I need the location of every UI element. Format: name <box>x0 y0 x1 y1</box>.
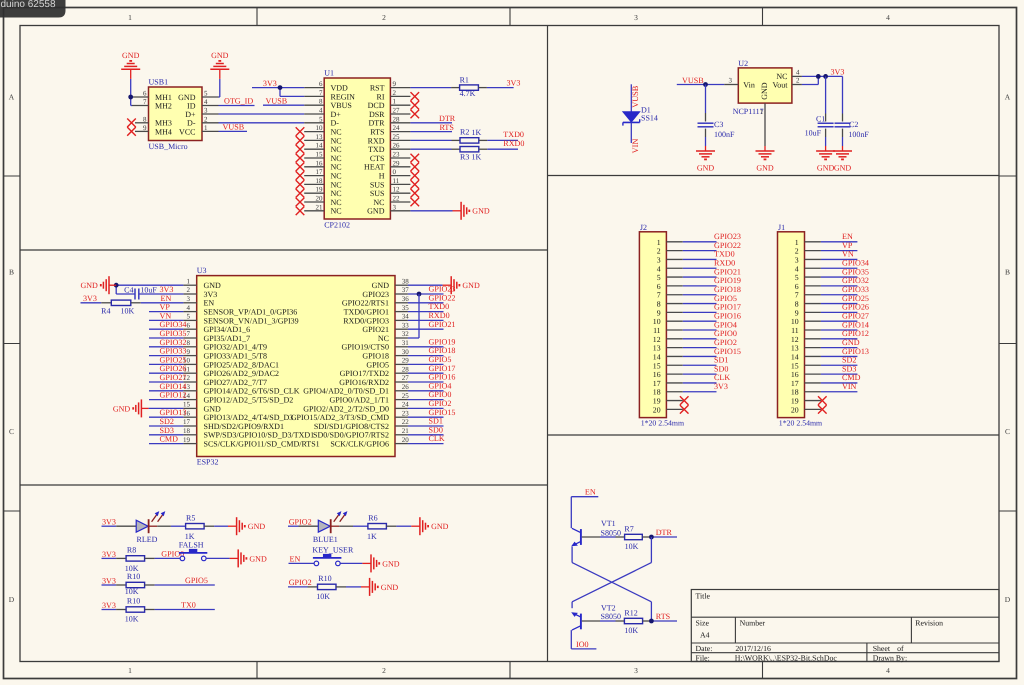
svg-text:EN: EN <box>585 488 596 497</box>
svg-text:SENSOR_VN/AD1_3/GPI39: SENSOR_VN/AD1_3/GPI39 <box>204 316 299 325</box>
resistor R5 1K <box>185 514 204 541</box>
svg-text:SD3: SD3 <box>842 364 856 373</box>
section divider vertical <box>547 26 549 662</box>
U3 left pin stubs and numbers <box>183 277 197 443</box>
svg-text:6: 6 <box>319 80 323 88</box>
svg-text:13: 13 <box>653 344 661 353</box>
svg-text:CTS: CTS <box>370 154 385 163</box>
svg-text:38: 38 <box>402 277 410 285</box>
power ground GND above USB1 <box>121 51 140 79</box>
svg-text:GPIO2: GPIO2 <box>714 338 737 347</box>
svg-text:17: 17 <box>791 379 799 388</box>
net label GPIO18 at U3 pin 30 <box>429 346 456 355</box>
net label VUSB at USB1 <box>223 122 245 131</box>
wire U3 left pin 6 GPIO34 <box>149 328 183 330</box>
net label GPIO27 at U3 pin 12 <box>160 373 187 382</box>
J1 pin 19 no-connect <box>805 396 827 405</box>
net label EN at J1 pin 1 <box>842 232 853 241</box>
svg-text:GPIO22: GPIO22 <box>429 293 456 302</box>
svg-text:of: of <box>897 644 904 653</box>
net label VP at U3 pin 4 <box>160 303 171 312</box>
svg-text:CMD: CMD <box>160 435 179 444</box>
svg-text:2: 2 <box>382 666 386 675</box>
svg-text:GPIO12/AD2_5/T5/SD_D2: GPIO12/AD2_5/T5/SD_D2 <box>204 396 294 405</box>
svg-text:SWP/SD3/GPIO10/SD_D3/TXD1: SWP/SD3/GPIO10/SD_D3/TXD1 <box>204 431 315 440</box>
wire C3 lower lead <box>705 129 707 146</box>
svg-text:20: 20 <box>316 195 324 203</box>
svg-text:10K: 10K <box>121 307 135 316</box>
svg-text:S8050: S8050 <box>601 529 621 538</box>
svg-text:GPIO23: GPIO23 <box>429 285 456 294</box>
svg-text:RTS: RTS <box>370 128 384 137</box>
svg-text:8: 8 <box>187 339 191 347</box>
wire U3 pin37 GPIO23 <box>408 293 444 295</box>
dark corner tag duino 62558 <box>0 0 66 18</box>
wire 3V3 to R10 TX0 <box>102 609 127 611</box>
svg-text:A: A <box>1005 93 1011 102</box>
svg-text:9: 9 <box>187 348 191 356</box>
column number 4 top <box>886 13 890 22</box>
USB1 pin 5 <box>202 90 219 98</box>
svg-text:EN: EN <box>290 555 301 564</box>
svg-text:GPIO22/RTS1: GPIO22/RTS1 <box>342 299 389 308</box>
wire U3 left pin 18 SD3 <box>149 434 183 436</box>
net label 3V3 at U2 output <box>831 67 845 76</box>
power ground GND above USB1 pin5 <box>210 51 229 79</box>
section divider left upper <box>20 249 548 251</box>
svg-text:duino 62558: duino 62558 <box>1 0 56 10</box>
svg-text:6: 6 <box>187 321 191 329</box>
power ground GND right of U3 pin38 <box>443 276 480 294</box>
net label GPIO35 at U3 pin 7 <box>160 329 187 338</box>
svg-text:4: 4 <box>204 98 208 106</box>
wire U3 right pin 25 GPIO0 <box>408 399 444 401</box>
svg-text:J1: J1 <box>778 223 785 232</box>
svg-text:NC: NC <box>331 180 342 189</box>
svg-text:23: 23 <box>393 151 401 159</box>
svg-text:GND: GND <box>249 554 267 563</box>
svg-text:GND: GND <box>80 281 98 290</box>
USB1 pin 2 wire D- <box>202 115 304 123</box>
svg-text:GPIO27: GPIO27 <box>160 373 187 382</box>
net label VUSB rotated at D1 <box>631 85 640 108</box>
J2 pin 19 no-connect <box>666 396 688 405</box>
net label CLK at U3 pin 20 <box>429 434 445 443</box>
svg-text:A: A <box>9 93 15 102</box>
wire U3 left pin 12 GPIO27 <box>149 381 183 383</box>
svg-text:4: 4 <box>187 304 191 312</box>
svg-text:Size: Size <box>696 619 710 628</box>
net label SD1 at J2 pin 15 <box>714 356 728 365</box>
net label GPIO33 at J1 pin 7 <box>842 285 869 294</box>
wire U3 left pin 11 GPIO26 <box>149 372 183 374</box>
net label GPIO0 at J2 pin 12 <box>714 329 737 338</box>
net label RTS at VT2 <box>656 612 670 621</box>
svg-text:10K: 10K <box>625 542 639 551</box>
svg-text:4: 4 <box>795 264 799 273</box>
svg-text:2: 2 <box>796 77 800 85</box>
column number 4 bottom <box>886 666 890 675</box>
svg-text:GPIO4/AD2_0/T0/SD_D1: GPIO4/AD2_0/T0/SD_D1 <box>303 387 389 396</box>
wire U3 right pin 26 GPIO4 <box>408 390 444 392</box>
svg-text:12: 12 <box>393 186 401 194</box>
svg-text:DSR: DSR <box>369 110 385 119</box>
svg-text:1K: 1K <box>367 532 377 541</box>
svg-text:21: 21 <box>402 427 410 435</box>
net label 3V3 right of R1 <box>507 78 521 87</box>
wire EN to KEY_USER <box>289 562 315 564</box>
net label GPIO12 at U3 pin 14 <box>160 391 187 400</box>
resistor R12 10K <box>624 609 642 635</box>
svg-text:6: 6 <box>143 90 147 98</box>
net label GPIO27 at J1 pin 10 <box>842 311 869 320</box>
svg-text:25: 25 <box>402 392 410 400</box>
svg-text:17: 17 <box>316 168 324 176</box>
wire R7 to DTR <box>642 536 677 538</box>
net label VUSB at U1 VBUS <box>266 97 288 106</box>
svg-text:A4: A4 <box>700 631 710 640</box>
power ground GND below C1 <box>816 146 835 173</box>
svg-text:GPIO18: GPIO18 <box>429 346 456 355</box>
svg-text:GPI34/AD1_6: GPI34/AD1_6 <box>204 325 251 334</box>
net label GPIO19 at J2 pin 6 <box>714 276 741 285</box>
pushbutton KEY_USER <box>312 546 354 566</box>
svg-text:GND: GND <box>697 164 715 173</box>
svg-text:4.7K: 4.7K <box>460 89 476 98</box>
svg-text:3V3: 3V3 <box>507 78 521 87</box>
svg-text:8: 8 <box>657 300 661 309</box>
svg-text:37: 37 <box>402 286 410 294</box>
junction DTR node <box>649 535 654 540</box>
op-amp U1 CP2102 body <box>324 69 390 230</box>
svg-text:DTR: DTR <box>656 528 673 537</box>
svg-text:NC: NC <box>331 145 342 154</box>
svg-text:7: 7 <box>795 291 799 300</box>
svg-text:USB_Micro: USB_Micro <box>149 142 188 151</box>
wire USB1 pin5 to ground <box>219 79 220 97</box>
net label SD2 at J1 pin 15 <box>842 356 856 365</box>
svg-text:GPIO12: GPIO12 <box>160 391 187 400</box>
svg-text:J2: J2 <box>640 223 647 232</box>
junction 3V3 U1 <box>278 85 283 90</box>
svg-text:GPIO2: GPIO2 <box>289 518 312 527</box>
net label GPIO2 at R10 right <box>289 578 312 587</box>
svg-text:C1: C1 <box>816 115 825 124</box>
svg-text:GPIO0/AD2_1/T1: GPIO0/AD2_1/T1 <box>329 396 389 405</box>
wire U3 left pin 8 GPIO32 <box>149 346 183 348</box>
svg-text:SD3: SD3 <box>160 426 174 435</box>
svg-text:R1: R1 <box>460 75 469 84</box>
svg-text:17: 17 <box>183 418 191 426</box>
column number 2 top <box>382 13 386 22</box>
wire FALSH to ground <box>206 557 230 559</box>
svg-text:TXD0: TXD0 <box>714 250 735 259</box>
svg-text:VDD: VDD <box>331 84 349 93</box>
svg-text:R3: R3 <box>460 152 469 161</box>
svg-text:U3: U3 <box>197 266 207 275</box>
svg-text:C: C <box>9 427 14 436</box>
svg-text:GPIO17: GPIO17 <box>429 364 456 373</box>
net label RXD0 at J2 pin 4 <box>714 259 735 268</box>
svg-text:VUSB: VUSB <box>631 85 640 108</box>
svg-text:12: 12 <box>791 335 799 344</box>
svg-text:GPIO17: GPIO17 <box>714 303 741 312</box>
svg-text:GND: GND <box>122 51 140 60</box>
column number 1 top <box>128 13 132 22</box>
svg-text:3V3: 3V3 <box>83 294 97 303</box>
junction U3 pin37 pin32 <box>417 292 422 297</box>
svg-text:GND: GND <box>462 281 480 290</box>
svg-text:TX0: TX0 <box>181 601 196 610</box>
svg-text:TXD: TXD <box>368 145 385 154</box>
wire DTR cross to VT2 emitter <box>572 537 651 608</box>
svg-text:8: 8 <box>795 300 799 309</box>
svg-text:GPIO25: GPIO25 <box>160 355 187 364</box>
svg-text:EN: EN <box>161 294 172 303</box>
wire U3 right pin 30 GPIO18 <box>408 355 444 357</box>
J1 pin 16 wire SD3 <box>805 373 858 375</box>
wire R6 to ground <box>386 525 411 527</box>
svg-text:S8050: S8050 <box>601 612 621 621</box>
J1 pin 4 wire GPIO34 <box>805 267 858 269</box>
svg-text:19: 19 <box>653 397 661 406</box>
wire 3V3 to R4 <box>81 302 112 304</box>
wire U3 right pin 22 SD1 <box>408 425 444 427</box>
svg-text:18: 18 <box>791 388 799 397</box>
svg-text:18: 18 <box>653 388 661 397</box>
svg-text:GND: GND <box>756 164 774 173</box>
svg-text:18: 18 <box>183 427 191 435</box>
svg-text:7: 7 <box>319 89 323 97</box>
net label IO0 <box>576 640 589 649</box>
J1 pin 9 wire GPIO26 <box>805 311 858 313</box>
net label 3V3 at R10 GPIO5 <box>102 576 116 585</box>
resistor R7 10K <box>624 525 642 551</box>
U2 pin 4 NC wire <box>792 68 843 76</box>
net label 3V3 at J2 pin 18 <box>714 382 728 391</box>
svg-text:6: 6 <box>657 282 661 291</box>
resistor R10 right 10K <box>316 574 336 601</box>
wire U3 right pin 36 GPIO22 <box>408 302 444 304</box>
svg-text:100nF: 100nF <box>848 130 869 139</box>
svg-text:TXD0: TXD0 <box>503 130 524 139</box>
svg-text:GND: GND <box>372 281 390 290</box>
svg-text:0: 0 <box>393 168 397 176</box>
svg-text:21: 21 <box>316 203 324 211</box>
svg-text:File:: File: <box>696 653 710 662</box>
wire 3V3 to R10 GPIO5 <box>102 584 127 586</box>
svg-text:D: D <box>1005 595 1011 604</box>
net label GPIO16 at U3 pin 27 <box>429 373 456 382</box>
svg-text:GPIO35: GPIO35 <box>160 329 187 338</box>
svg-text:3: 3 <box>204 107 208 115</box>
svg-text:R10: R10 <box>127 572 140 581</box>
svg-text:GPIO14/AD2_6/T6/SD_CLK: GPIO14/AD2_6/T6/SD_CLK <box>204 387 300 396</box>
svg-text:16: 16 <box>791 370 799 379</box>
svg-text:DTR: DTR <box>439 114 456 123</box>
regulator U2 NCP1117 body <box>733 59 792 116</box>
svg-text:RXD0: RXD0 <box>429 311 450 320</box>
svg-text:GPIO5: GPIO5 <box>366 360 389 369</box>
net label SD0 at J2 pin 16 <box>714 364 728 373</box>
svg-text:10uF: 10uF <box>140 285 157 294</box>
svg-text:5: 5 <box>187 313 191 321</box>
wire U3 pin15 GND <box>149 407 184 409</box>
svg-text:GND: GND <box>248 522 266 531</box>
svg-text:4: 4 <box>319 107 323 115</box>
svg-text:GPIO21: GPIO21 <box>362 325 389 334</box>
svg-text:U1: U1 <box>324 69 334 78</box>
section divider left lower <box>20 484 548 486</box>
svg-text:ESP32: ESP32 <box>197 457 219 466</box>
svg-text:NC: NC <box>331 163 342 172</box>
power ground GND right of R5 <box>228 517 265 535</box>
svg-text:16: 16 <box>653 370 661 379</box>
power ground GND right of FALSH <box>230 549 267 567</box>
resistor R8 10K <box>125 546 145 573</box>
svg-text:SD2: SD2 <box>842 356 856 365</box>
svg-text:GPIO18: GPIO18 <box>362 352 389 361</box>
svg-text:SHD/SD2/GPIO9/RXD1: SHD/SD2/GPIO9/RXD1 <box>204 422 284 431</box>
svg-text:GPIO0: GPIO0 <box>714 329 737 338</box>
svg-text:11: 11 <box>791 326 799 335</box>
svg-text:1: 1 <box>760 108 764 116</box>
USB1 pin 8 no-connect <box>127 115 148 127</box>
svg-text:VCC: VCC <box>179 127 195 136</box>
net label VUSB at U2 <box>682 76 704 85</box>
wire BLUE1 to R6 <box>331 525 368 527</box>
svg-text:GPIO14: GPIO14 <box>842 320 869 329</box>
wire U3 left pin 9 GPIO33 <box>149 355 183 357</box>
svg-text:GPIO15/AD2_3/T3/SD_CMD: GPIO15/AD2_3/T3/SD_CMD <box>291 413 389 422</box>
net label TXD0 <box>503 130 524 139</box>
svg-text:VN: VN <box>842 250 854 259</box>
svg-text:GPIO16: GPIO16 <box>714 311 741 320</box>
svg-text:3V3: 3V3 <box>102 601 116 610</box>
wire U1 RXD to R2 <box>410 139 460 141</box>
svg-text:MH2: MH2 <box>155 101 172 110</box>
svg-text:4: 4 <box>657 264 661 273</box>
svg-text:5: 5 <box>795 273 799 282</box>
svg-text:10: 10 <box>653 317 661 326</box>
svg-text:VP: VP <box>842 241 853 250</box>
svg-text:100nF: 100nF <box>714 130 735 139</box>
J2 pin 11 wire GPIO4 <box>666 329 716 331</box>
U1 left pin stubs and numbers <box>304 80 324 211</box>
junction Vout node 1 <box>816 74 821 79</box>
J2 pin 8 wire GPIO5 <box>666 303 716 305</box>
svg-text:14: 14 <box>316 142 324 150</box>
svg-text:SD1: SD1 <box>429 417 443 426</box>
net label EN at U3 pin3 <box>161 294 172 303</box>
svg-text:RXD0: RXD0 <box>503 139 524 148</box>
J2 pin 16 wire SD0 <box>666 373 716 375</box>
J2 pin 12 wire GPIO0 <box>666 338 716 340</box>
J1 pin 8 wire GPIO25 <box>805 303 858 305</box>
wire U3 left pin 13 GPIO14 <box>149 390 183 392</box>
svg-text:27: 27 <box>393 107 401 115</box>
wire U3 right pin 33 GPIO21 <box>408 328 444 330</box>
wire C2 lower lead <box>842 129 844 146</box>
net label VN at J1 pin 3 <box>842 250 854 259</box>
USB1 pin 3 wire D+ <box>202 107 304 115</box>
svg-text:VIN: VIN <box>631 139 640 154</box>
svg-text:NC: NC <box>378 334 389 343</box>
wire U3 right pin 21 SD0 <box>408 434 444 436</box>
svg-text:RTS: RTS <box>656 612 670 621</box>
svg-text:D-: D- <box>331 119 340 128</box>
svg-text:5: 5 <box>319 115 323 123</box>
svg-text:10: 10 <box>316 124 324 132</box>
wire C1 upper lead <box>825 76 827 121</box>
svg-text:EN: EN <box>842 232 853 241</box>
svg-text:GPIO2/AD2_2/T2/SD_D0: GPIO2/AD2_2/T2/SD_D0 <box>303 404 389 413</box>
svg-text:29: 29 <box>402 357 410 365</box>
net label VIN rotated at D1 <box>631 139 640 154</box>
net label GPIO34 at J1 pin 4 <box>842 259 869 268</box>
svg-text:GND: GND <box>113 404 131 413</box>
svg-text:2017/12/16: 2017/12/16 <box>735 644 771 653</box>
net label EN at VT1 <box>585 488 596 497</box>
net label SD1 at U3 pin 22 <box>429 417 443 426</box>
net label VN at U3 pin 5 <box>160 311 172 320</box>
svg-text:GPIO19/CTS0: GPIO19/CTS0 <box>341 343 389 352</box>
svg-text:2: 2 <box>382 13 386 22</box>
net label RTS <box>440 123 454 132</box>
net label 3V3 at R10 TX0 <box>102 601 116 610</box>
net label GPIO32 at J1 pin 6 <box>842 276 869 285</box>
svg-text:VUSB: VUSB <box>223 122 245 131</box>
svg-text:9: 9 <box>795 308 799 317</box>
section divider right lower <box>548 434 1000 436</box>
svg-text:BLUE1: BLUE1 <box>313 535 338 544</box>
U2 pin 2 Vout wire <box>792 76 818 84</box>
J2 pin 17 wire CLK <box>666 382 716 384</box>
svg-text:VP: VP <box>160 303 171 312</box>
capacitor C2 100nF <box>835 120 870 139</box>
svg-text:USB1: USB1 <box>149 78 169 87</box>
svg-text:R6: R6 <box>368 514 377 523</box>
svg-text:TXD0: TXD0 <box>429 302 450 311</box>
svg-text:FALSH: FALSH <box>179 541 204 550</box>
wire R12 to RTS <box>643 620 677 622</box>
svg-text:1: 1 <box>393 98 397 106</box>
svg-text:GPIO25: GPIO25 <box>842 294 869 303</box>
svg-text:1K: 1K <box>472 128 482 137</box>
resistor R2 1K <box>460 127 482 143</box>
svg-text:GPIO4: GPIO4 <box>714 320 737 329</box>
J1 pin 11 wire GPIO14 <box>805 329 858 331</box>
wire 3V3 to RLED <box>102 525 137 527</box>
net label GPIO17 at J2 pin 9 <box>714 303 741 312</box>
wire U3 pin38 GND <box>408 284 443 286</box>
net label GPIO25 at J1 pin 8 <box>842 294 869 303</box>
svg-text:GPIO19: GPIO19 <box>429 337 456 346</box>
svg-text:KEY_USER: KEY_USER <box>312 546 354 555</box>
J2 pin 20 no-connect <box>666 405 688 414</box>
svg-text:Revision: Revision <box>915 619 943 628</box>
svg-text:GPIO22: GPIO22 <box>714 241 741 250</box>
column number 3 bottom <box>634 666 638 675</box>
svg-text:7: 7 <box>657 291 661 300</box>
svg-text:3V3: 3V3 <box>102 550 116 559</box>
net label GPIO26 at J1 pin 9 <box>842 303 869 312</box>
svg-text:GPIO17/TXD2: GPIO17/TXD2 <box>340 369 389 378</box>
svg-text:20: 20 <box>402 436 410 444</box>
J1 pin 10 wire GPIO27 <box>805 320 858 322</box>
net label GPIO0 at FALSH <box>161 550 184 559</box>
wire U1 GND pin 3 <box>410 210 452 212</box>
